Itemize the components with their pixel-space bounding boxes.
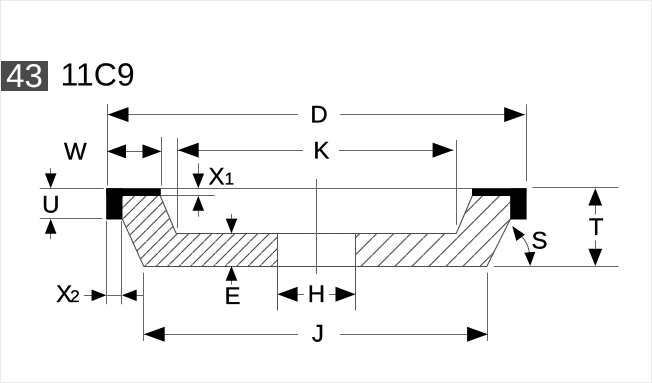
dimension E upper arrow bbox=[231, 214, 233, 221]
svg-text:2: 2 bbox=[70, 287, 79, 306]
abrasive rim left top bar bbox=[106, 188, 161, 196]
dimension X1 upper arrow bbox=[198, 163, 200, 176]
wheel bottom face line bbox=[144, 266, 488, 268]
svg-text:D: D bbox=[310, 102, 327, 129]
svg-text:X: X bbox=[209, 164, 225, 191]
J extension line right bbox=[487, 273, 489, 341]
dimension J line bbox=[144, 334, 298, 336]
dimension K arrowhead left bbox=[178, 143, 199, 158]
T extension line bottom / S baseline bbox=[494, 266, 619, 268]
dimension K arrowhead right bbox=[433, 143, 454, 158]
dimension H arrowhead left bbox=[277, 287, 297, 302]
top face line between rims bbox=[160, 188, 472, 190]
W extension line right bbox=[161, 137, 163, 185]
D extension line left bbox=[107, 104, 109, 185]
svg-text:11C9: 11C9 bbox=[61, 57, 135, 93]
abrasive rim right top bar bbox=[472, 188, 527, 196]
dimension U upper arrow bbox=[50, 168, 52, 176]
dimension J arrowhead left bbox=[144, 327, 165, 342]
core inner wall left bbox=[160, 196, 176, 233]
angle S arc bbox=[521, 237, 529, 254]
U extension line bottom bbox=[40, 218, 103, 220]
svg-text:W: W bbox=[64, 139, 87, 166]
dimension D line bbox=[108, 114, 298, 116]
dimension W arrowhead left bbox=[107, 144, 126, 158]
wheel core hatched fill left half bbox=[123, 196, 317, 267]
X2 extension line right bbox=[121, 221, 123, 304]
hole (bore) white gap bbox=[278, 234, 355, 266]
svg-text:H: H bbox=[308, 281, 325, 308]
angle S upper arrowhead bbox=[512, 226, 525, 241]
svg-text:K: K bbox=[313, 137, 329, 164]
hole wall left / H extension line bbox=[277, 233, 279, 311]
dimension K line bbox=[178, 150, 303, 152]
index box 43 bbox=[1, 61, 48, 91]
hole wall right / H extension line bbox=[355, 233, 357, 311]
svg-text:S: S bbox=[531, 228, 547, 255]
dimension X2 arrowhead left bbox=[92, 290, 107, 302]
dimension D arrowhead right bbox=[504, 107, 525, 122]
dimension W shaft bbox=[124, 151, 147, 153]
abrasive rim left side bar bbox=[106, 188, 122, 219]
X2 extension line left bbox=[106, 221, 108, 304]
angle S lower arrowhead bbox=[524, 252, 535, 266]
dimension H arrowhead right bbox=[336, 287, 356, 302]
svg-text:U: U bbox=[42, 191, 59, 218]
core outer wall left bbox=[123, 219, 144, 266]
U extension line top bbox=[40, 188, 104, 190]
X1 step line bbox=[160, 195, 214, 197]
dimension X2 arrowhead right bbox=[122, 290, 137, 302]
dimension J arrowhead right bbox=[467, 327, 488, 342]
K extension line right bbox=[456, 140, 458, 225]
T extension line top bbox=[532, 187, 618, 189]
recess floor line bbox=[176, 233, 457, 235]
dimension W arrowhead right bbox=[143, 144, 162, 158]
dimension D arrowhead left bbox=[108, 107, 129, 122]
dimension U lower arrow bbox=[50, 231, 52, 239]
K extension line left bbox=[177, 138, 179, 228]
dimension X1 lower arrow bbox=[198, 210, 200, 217]
core inner wall right bbox=[456, 196, 472, 233]
dimension H line bbox=[296, 294, 304, 296]
wheel core hatched fill right half bbox=[317, 196, 511, 267]
dimension X2 line bbox=[84, 295, 92, 297]
core outer wall right bbox=[487, 219, 510, 266]
dimension T upper arrow bbox=[595, 206, 597, 215]
svg-text:E: E bbox=[224, 283, 240, 310]
D extension line right bbox=[526, 104, 528, 181]
centerline bbox=[316, 179, 318, 274]
svg-text:1: 1 bbox=[225, 170, 234, 189]
svg-text:J: J bbox=[312, 321, 324, 348]
abrasive rim right side bar bbox=[510, 188, 526, 219]
J extension line left bbox=[143, 273, 145, 341]
svg-text:43: 43 bbox=[6, 57, 43, 94]
svg-text:T: T bbox=[589, 214, 604, 241]
dimension T lower arrow bbox=[595, 241, 597, 249]
dimension E lower arrow bbox=[231, 278, 233, 285]
